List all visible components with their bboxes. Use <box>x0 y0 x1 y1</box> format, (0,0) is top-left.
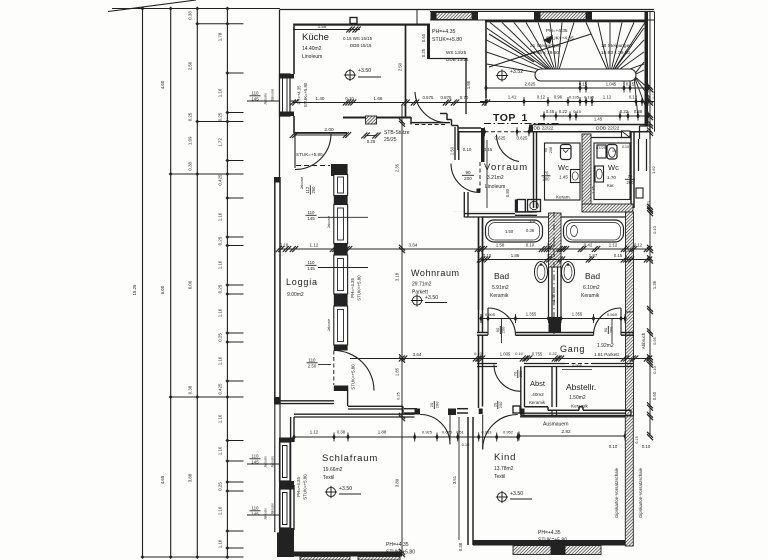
svg-text:0.60: 0.60 <box>652 391 657 400</box>
svg-text:29.71m2: 29.71m2 <box>412 282 432 288</box>
svg-text:1.72: 1.72 <box>218 138 223 147</box>
strip door arc <box>334 351 374 391</box>
svg-text:0.10: 0.10 <box>463 147 472 152</box>
svg-text:0.22: 0.22 <box>549 351 558 356</box>
svg-text:0.25: 0.25 <box>396 391 401 400</box>
pill tick extensions <box>579 81 581 88</box>
svg-text:90: 90 <box>495 327 500 332</box>
kitchen bottom wall <box>343 117 411 119</box>
svg-text:1.40: 1.40 <box>316 96 325 101</box>
svg-text:Jalousie: Jalousie <box>300 177 304 190</box>
svg-text:0.10: 0.10 <box>483 253 492 258</box>
svg-text:0.45: 0.45 <box>546 109 555 114</box>
dimension extension line V2 <box>170 9 172 558</box>
svg-text:STUK=+5.80: STUK=+5.80 <box>303 82 308 107</box>
stair outer top wall band <box>430 11 654 13</box>
svg-text:1.12: 1.12 <box>310 430 319 435</box>
svg-text:1.10: 1.10 <box>218 539 223 548</box>
svg-text:1.005: 1.005 <box>500 352 511 357</box>
svg-text:145: 145 <box>307 216 315 221</box>
svg-text:Kar.: Kar. <box>607 183 614 188</box>
svg-text:0.96: 0.96 <box>554 95 563 100</box>
wc1 west wall <box>533 132 535 208</box>
stair radiating treads left <box>490 23 557 77</box>
svg-text:1.86: 1.86 <box>511 253 520 258</box>
svg-text:Linoleum: Linoleum <box>485 184 505 190</box>
kind top east wall <box>520 412 626 414</box>
abstellr door dashes <box>565 363 592 365</box>
schlafraum door arc <box>420 415 450 445</box>
svg-text:70: 70 <box>512 371 517 376</box>
svg-text:3.88: 3.88 <box>188 473 193 482</box>
svg-text:70: 70 <box>544 170 549 175</box>
svg-text:1.70: 1.70 <box>607 175 616 180</box>
svg-text:3.18: 3.18 <box>395 272 400 281</box>
svg-text:1.45: 1.45 <box>559 175 568 180</box>
svg-text:+3.50: +3.50 <box>339 486 352 492</box>
svg-text:1.50m2: 1.50m2 <box>569 395 586 401</box>
kitchen left wall lower <box>293 116 295 133</box>
wing bottom wall baseline <box>521 415 632 417</box>
svg-text:0.38: 0.38 <box>458 542 463 551</box>
schlafraum north wall <box>294 413 415 415</box>
stair landing pill <box>535 69 636 81</box>
svg-text:1.12: 1.12 <box>603 95 612 100</box>
entrance opening dashes <box>485 131 530 133</box>
wc2 side fixture <box>597 145 606 158</box>
corridor bottom wall left part <box>458 127 481 129</box>
svg-text:15: 15 <box>612 149 616 153</box>
svg-text:0.875: 0.875 <box>441 95 453 100</box>
svg-text:PH=+4.35: PH=+4.35 <box>386 542 409 548</box>
svg-text:0.38: 0.38 <box>337 430 346 435</box>
dimension extension line V3 <box>196 9 198 558</box>
svg-text:1.45: 1.45 <box>594 117 603 122</box>
svg-text:Linoleum: Linoleum <box>302 54 322 60</box>
svg-text:+3.50: +3.50 <box>510 491 523 497</box>
svg-text:PH=+4.35: PH=+4.35 <box>432 29 455 35</box>
svg-text:STUK=+5.80: STUK=+5.80 <box>303 474 308 500</box>
schlafraum kind separating wall <box>467 417 469 545</box>
svg-text:0.505: 0.505 <box>485 312 496 317</box>
svg-text:9.00m2: 9.00m2 <box>287 292 304 298</box>
svg-text:0.38: 0.38 <box>188 385 193 394</box>
svg-text:0.12: 0.12 <box>537 95 546 100</box>
door posts schlafraum kind <box>415 409 421 415</box>
vorraum door 90/200 arc <box>451 164 480 193</box>
svg-text:PH=+4.35: PH=+4.35 <box>538 530 561 536</box>
svg-text:0.98: 0.98 <box>547 243 556 248</box>
svg-text:Ausmauern: Ausmauern <box>543 422 569 428</box>
svg-text:1.12: 1.12 <box>310 243 319 248</box>
kind bottom windows <box>513 546 551 555</box>
svg-text:0.15: 0.15 <box>626 82 635 87</box>
svg-text:Bad: Bad <box>494 271 509 281</box>
entry door arc kitchen <box>415 92 447 123</box>
bad1 wash basin <box>535 262 548 283</box>
svg-text:PH=+4.35: PH=+4.35 <box>350 278 355 298</box>
bad dim chain y248 <box>278 248 650 250</box>
entrance door post left <box>481 128 485 162</box>
stair dim chain 2 <box>480 101 655 103</box>
left dimension cross ticks <box>197 23 243 25</box>
svg-text:Kind: Kind <box>494 452 516 463</box>
loggia corner wall block <box>331 164 347 176</box>
svg-text:Jalousie: Jalousie <box>264 508 268 520</box>
wc2 sink <box>595 166 604 182</box>
window strip window B <box>334 205 348 244</box>
bad separating wall bottom block <box>549 317 562 333</box>
svg-text:Jalousie: Jalousie <box>271 89 275 102</box>
svg-text:0.22: 0.22 <box>547 253 556 258</box>
svg-text:0.25: 0.25 <box>218 284 223 293</box>
wohnraum vertical dim line <box>401 105 403 553</box>
vorraum bottom wall <box>464 213 515 215</box>
svg-text:200: 200 <box>435 401 440 408</box>
svg-text:0.22: 0.22 <box>620 109 629 114</box>
svg-text:3.51: 3.51 <box>655 479 656 480</box>
svg-text:0.22: 0.22 <box>559 109 568 114</box>
stair direction arrow <box>489 34 591 67</box>
svg-text:25/25: 25/25 <box>384 137 397 143</box>
window leader lines <box>247 100 298 102</box>
svg-text:1.50: 1.50 <box>505 229 514 234</box>
svg-text:1.10: 1.10 <box>218 356 223 365</box>
svg-text:Du.: Du. <box>530 219 536 223</box>
svg-text:PH=+4.35: PH=+4.35 <box>297 85 302 105</box>
svg-text:0.425: 0.425 <box>218 383 223 395</box>
abst west wall <box>520 367 522 408</box>
svg-text:0.15: 0.15 <box>652 91 656 98</box>
svg-text:0.12: 0.12 <box>634 243 643 248</box>
wing bottom wall top edge steps <box>525 406 549 408</box>
bad separating wall lower lines <box>548 267 550 317</box>
svg-text:0.25: 0.25 <box>218 333 223 342</box>
stb column hatched <box>366 116 377 124</box>
axis line bad wall <box>553 212 555 334</box>
svg-text:0.25: 0.25 <box>218 482 223 491</box>
svg-text:200: 200 <box>464 176 472 181</box>
svg-text:0.38: 0.38 <box>188 11 193 20</box>
schlafraum interior dim line <box>458 417 460 540</box>
corridor step walls <box>440 113 447 115</box>
svg-text:Textil: Textil <box>323 475 334 481</box>
svg-text:208: 208 <box>549 147 553 153</box>
wall x466 <box>465 59 467 115</box>
svg-text:1.35: 1.35 <box>591 185 596 194</box>
svg-text:0.10: 0.10 <box>345 96 354 101</box>
svg-text:90: 90 <box>465 170 471 175</box>
svg-text:DDB 22/22: DDB 22/22 <box>530 126 554 132</box>
svg-text:20: 20 <box>429 402 434 407</box>
wc2 east wall <box>630 132 632 208</box>
schlafraum west wall <box>290 417 292 552</box>
window strip sill 4 with door below <box>334 345 348 351</box>
svg-text:21 Steigungen: 21 Steigungen <box>530 43 561 49</box>
stair window top 2 <box>540 12 586 20</box>
svg-text:0.135: 0.135 <box>569 95 580 100</box>
svg-text:0.42: 0.42 <box>584 243 593 248</box>
stair dim chain 3 <box>540 115 650 117</box>
bad1 door arc <box>487 308 489 335</box>
kitchen level mark +3.50 <box>345 70 354 79</box>
svg-text:1.92m2: 1.92m2 <box>597 343 614 349</box>
window strip window C <box>334 255 348 294</box>
svg-text:0.675: 0.675 <box>442 430 453 435</box>
window strip sill 2 <box>334 244 348 256</box>
svg-text:0.70: 0.70 <box>460 95 469 100</box>
shaft wall east of wc2 <box>638 139 640 171</box>
svg-text:Jalousie: Jalousie <box>264 456 268 468</box>
svg-text:112: 112 <box>305 186 310 193</box>
wing wall inner verticals <box>520 407 522 416</box>
kitchen loggia wall <box>294 132 347 134</box>
dimension extension line V1 <box>142 9 144 558</box>
svg-text:6.00: 6.00 <box>160 285 165 294</box>
vorraum shower square <box>515 200 518 212</box>
bad2 bathtub <box>564 220 624 242</box>
svg-text:STUK=+5.80: STUK=+5.80 <box>296 152 323 157</box>
east dim line <box>649 12 651 437</box>
svg-text:0.565: 0.565 <box>607 312 618 317</box>
svg-text:110: 110 <box>252 90 260 95</box>
outer top wall line <box>280 9 654 11</box>
window strip sill 3 <box>334 294 348 306</box>
svg-text:1.55: 1.55 <box>318 24 327 29</box>
svg-text:13.78m2: 13.78m2 <box>494 466 514 472</box>
svg-text:2.625: 2.625 <box>525 82 537 87</box>
svg-text:.40m2: .40m2 <box>531 392 544 397</box>
svg-text:1.58: 1.58 <box>496 243 505 248</box>
svg-text:Keramik: Keramik <box>490 293 509 299</box>
svg-text:0.25: 0.25 <box>218 236 223 245</box>
svg-text:0.10: 0.10 <box>515 351 524 356</box>
stair left wall <box>485 22 487 98</box>
kitchen inner dim line 1.55 <box>293 29 360 31</box>
svg-text:1.355: 1.355 <box>526 312 537 317</box>
vorraum west wall upper <box>454 127 456 160</box>
svg-text:0.10: 0.10 <box>652 225 657 234</box>
gang north wall <box>477 332 488 334</box>
bad dim chain y259 <box>481 259 650 261</box>
kitchen dim chain <box>293 102 486 104</box>
window strip bottom block <box>334 386 348 392</box>
dim 0.25 column <box>366 135 377 137</box>
svg-text:1.41: 1.41 <box>508 95 517 100</box>
svg-text:200: 200 <box>609 326 614 333</box>
svg-text:1.88: 1.88 <box>378 430 387 435</box>
stair right wall <box>645 12 649 127</box>
kitchen bottom step wall <box>410 117 412 125</box>
svg-text:Keramik: Keramik <box>581 293 600 299</box>
svg-text:Bad: Bad <box>585 271 600 281</box>
svg-text:5.91m2: 5.91m2 <box>492 285 509 291</box>
svg-text:Keramik: Keramik <box>529 400 546 405</box>
svg-text:0.10: 0.10 <box>652 365 657 374</box>
svg-text:1.12: 1.12 <box>609 243 618 248</box>
svg-text:110: 110 <box>252 453 260 458</box>
svg-text:1.10: 1.10 <box>218 446 223 455</box>
svg-text:250: 250 <box>311 186 316 194</box>
wall right of kitchen <box>427 26 430 59</box>
svg-text:1.10: 1.10 <box>218 506 223 515</box>
svg-text:0.51: 0.51 <box>456 430 465 435</box>
svg-text:0.60: 0.60 <box>421 33 426 42</box>
svg-text:0.10: 0.10 <box>642 444 651 449</box>
svg-text:Loggia: Loggia <box>286 277 318 287</box>
svg-text:110: 110 <box>308 260 316 265</box>
svg-text:STB-Stütze: STB-Stütze <box>384 130 410 136</box>
schlafraum window 2 <box>280 489 291 528</box>
door zone wall <box>404 408 417 410</box>
svg-text:+3.50: +3.50 <box>425 295 438 301</box>
vorraum interior dim line <box>486 140 488 208</box>
stair top wall <box>485 20 648 23</box>
entrance door post right <box>529 125 533 133</box>
svg-text:0.15: 0.15 <box>573 109 582 114</box>
stair radiating treads right <box>586 23 610 77</box>
svg-text:0.36: 0.36 <box>526 228 535 233</box>
svg-text:1.10: 1.10 <box>218 212 223 221</box>
svg-text:STUK=+5.80: STUK=+5.80 <box>432 37 462 43</box>
kitchen right wall <box>405 26 407 118</box>
svg-text:0.925: 0.925 <box>422 430 433 435</box>
schlafraum level mark <box>326 487 335 496</box>
site boundary diagonal line <box>108 0 196 12</box>
svg-text:2.82: 2.82 <box>561 429 571 435</box>
svg-text:110: 110 <box>309 357 317 362</box>
svg-text:TOP: TOP <box>493 112 516 124</box>
svg-text:1.10: 1.10 <box>218 308 223 317</box>
bad south dims <box>481 318 625 320</box>
gang south wall <box>477 363 497 365</box>
svg-text:Jalousie: Jalousie <box>327 319 331 332</box>
wc1 inner outline <box>545 143 581 200</box>
schlafraum west wall lower <box>293 485 295 530</box>
svg-text:2.50: 2.50 <box>308 364 317 369</box>
east hatched wall upper <box>626 212 634 312</box>
wc separating wall hatched <box>582 134 591 211</box>
svg-text:1.81 Parkett: 1.81 Parkett <box>594 352 619 357</box>
svg-text:PH=+4.35: PH=+4.35 <box>546 28 568 34</box>
top dimension line <box>112 8 280 10</box>
svg-text:0.10: 0.10 <box>609 444 618 449</box>
entrance door arc <box>496 135 519 162</box>
svg-text:2.50: 2.50 <box>188 61 193 70</box>
bad1 bathtub <box>486 220 543 242</box>
svg-text:1.10: 1.10 <box>218 88 223 97</box>
svg-text:0.15: 0.15 <box>484 147 493 152</box>
svg-text:6.10m2: 6.10m2 <box>583 285 600 291</box>
outer left wall line <box>279 10 281 178</box>
svg-text:1.87: 1.87 <box>589 253 598 258</box>
svg-text:90: 90 <box>603 327 608 332</box>
svg-text:0.15: 0.15 <box>579 82 588 87</box>
svg-text:0.755: 0.755 <box>532 352 543 357</box>
svg-text:1.62: 1.62 <box>651 165 656 174</box>
dimension extension line V4 <box>226 9 228 558</box>
svg-text:Jalousie: Jalousie <box>264 93 268 105</box>
svg-text:0.10: 0.10 <box>646 200 651 209</box>
stair window top 1 <box>436 13 472 20</box>
svg-text:Gipskarton-Vorsatzschale: Gipskarton-Vorsatzschale <box>614 467 619 518</box>
svg-text:DDB 22/22: DDB 22/22 <box>596 126 620 132</box>
ausmauern dim 2.82 <box>519 435 625 437</box>
kitchen top wall <box>294 24 430 26</box>
hatched strip below wc <box>582 204 633 212</box>
svg-text:0.10: 0.10 <box>462 442 471 447</box>
window strip wall top block <box>334 164 348 175</box>
svg-text:1: 1 <box>522 112 528 124</box>
svg-text:0.625: 0.625 <box>517 136 529 141</box>
svg-text:DDB 15/15: DDB 15/15 <box>350 43 372 48</box>
svg-text:4.65: 4.65 <box>160 475 165 484</box>
strip bottom connection <box>347 386 349 407</box>
svg-text:Gipskarton-Vorsatzschale: Gipskarton-Vorsatzschale <box>638 467 643 518</box>
loggia outer wall <box>274 177 276 404</box>
svg-text:0.10: 0.10 <box>526 243 535 248</box>
svg-text:STUK=+5.80: STUK=+5.80 <box>357 275 362 301</box>
small box shaft <box>636 188 643 198</box>
svg-text:Wc: Wc <box>608 163 619 172</box>
vorraum fixture circle <box>528 200 541 212</box>
svg-text:0.25: 0.25 <box>218 112 223 121</box>
schlafraum bottom windows <box>300 557 350 560</box>
svg-text:0.10: 0.10 <box>622 145 629 149</box>
svg-text:+3.50: +3.50 <box>358 68 371 74</box>
svg-text:110: 110 <box>308 210 316 215</box>
schlafraum dim chain <box>294 436 520 438</box>
schlafraum window 1 <box>280 442 291 481</box>
door leaf end block <box>477 189 481 193</box>
kitchen window left <box>280 74 291 116</box>
svg-text:Küche: Küche <box>302 32 329 43</box>
svg-text:Wohnraum: Wohnraum <box>411 268 460 278</box>
svg-text:1.355: 1.355 <box>572 312 583 317</box>
svg-text:STUK=+5.80: STUK=+5.80 <box>386 550 415 556</box>
svg-text:Keram.: Keram. <box>556 195 571 200</box>
window strip window D <box>334 306 348 345</box>
svg-text:Schlafraum: Schlafraum <box>322 453 378 464</box>
kitchen left wall upper <box>293 24 295 75</box>
svg-text:0.952: 0.952 <box>503 430 514 435</box>
svg-text:Jalousie: Jalousie <box>271 503 275 515</box>
abst door arc <box>494 365 521 392</box>
svg-text:3.64: 3.64 <box>413 352 422 357</box>
corridor wall step right <box>640 125 651 127</box>
kind door arc <box>483 415 518 450</box>
svg-text:1.09: 1.09 <box>188 136 193 145</box>
vorraum-bad separating wall <box>454 210 536 212</box>
svg-text:145: 145 <box>251 512 259 517</box>
svg-text:0.80: 0.80 <box>505 188 510 197</box>
svg-text:14.40m2: 14.40m2 <box>302 46 322 52</box>
svg-text:1.78: 1.78 <box>218 32 223 41</box>
wall niche box wc2 <box>622 131 631 138</box>
svg-text:0.25: 0.25 <box>421 48 426 57</box>
loggia bottom wall <box>275 400 334 402</box>
kind level mark <box>497 492 506 501</box>
svg-text:200: 200 <box>543 176 551 181</box>
svg-text:1.40: 1.40 <box>480 147 485 156</box>
svg-text:0.18: 0.18 <box>280 243 289 248</box>
gang dim chain y358 <box>350 358 650 360</box>
svg-text:4.60: 4.60 <box>160 80 165 89</box>
svg-text:3.21m2: 3.21m2 <box>487 175 504 181</box>
svg-text:1.50: 1.50 <box>450 146 455 155</box>
svg-text:0.25: 0.25 <box>367 139 376 144</box>
svg-text:1.85: 1.85 <box>395 367 400 376</box>
